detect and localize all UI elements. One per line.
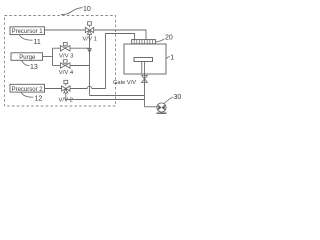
svg-text:11: 11 xyxy=(34,39,41,46)
label 11 xyxy=(34,39,41,46)
valve V/V 1 (3-way) xyxy=(85,22,93,35)
pump 30 xyxy=(157,103,167,113)
svg-text:Purge: Purge xyxy=(19,55,36,61)
svg-text:13: 13 xyxy=(30,64,38,71)
valve V/V 2 (3-way) xyxy=(62,80,70,93)
label V/V 1 xyxy=(83,36,97,42)
label 12 leader xyxy=(21,92,34,97)
label 10 leader xyxy=(61,8,83,15)
wire precursor1 to V/V1 xyxy=(44,29,85,31)
label 13 xyxy=(30,64,38,71)
svg-text:Precursor 2: Precursor 2 xyxy=(12,87,44,93)
showerhead 20 xyxy=(132,40,156,44)
wire V/V2 vent down and to exhaust xyxy=(66,93,145,100)
wire exhaust to pump xyxy=(145,106,158,108)
wire vent bottom run to exhaust xyxy=(90,95,146,97)
svg-text:Gate V/V: Gate V/V xyxy=(113,80,136,86)
valve V/V 4 xyxy=(60,60,70,68)
wire line B: V/V2 up riser to chamber drop (with hop over vent) xyxy=(70,34,135,89)
wire vent line from V/V1 down xyxy=(89,35,91,96)
svg-text:Precursor 1: Precursor 1 xyxy=(12,29,44,35)
label Gate V/V xyxy=(113,80,136,86)
label 20 leader xyxy=(156,39,165,42)
junction check mark on vent at V/V3 tee xyxy=(88,49,92,53)
svg-text:10: 10 xyxy=(83,6,91,13)
valve V/V 3 xyxy=(60,42,70,51)
chamber vessel 1 xyxy=(124,44,166,74)
svg-text:V/V 3: V/V 3 xyxy=(59,53,74,59)
svg-text:12: 12 xyxy=(35,95,43,102)
box Precursor 1 xyxy=(10,27,45,35)
gate valve xyxy=(142,76,148,83)
label 11 leader xyxy=(20,35,33,40)
wire purge manifold split xyxy=(43,48,61,65)
label 13 leader xyxy=(22,61,30,66)
label V/V 2 xyxy=(59,97,73,103)
wire chamber exhaust down xyxy=(144,74,146,107)
svg-text:30: 30 xyxy=(174,94,182,101)
box Precursor 2 xyxy=(10,84,45,93)
label V/V 3 xyxy=(59,53,74,59)
svg-text:20: 20 xyxy=(165,34,173,41)
label 30 xyxy=(174,94,182,101)
wire V/V4 to vent tee xyxy=(70,65,90,67)
label 20 xyxy=(165,34,173,41)
wire V/V3 to vent tee xyxy=(70,47,90,49)
label 12 xyxy=(35,95,43,102)
wire line A: V/V1 to chamber drop xyxy=(94,30,146,40)
box Purge xyxy=(11,53,43,61)
svg-text:V/V 4: V/V 4 xyxy=(59,70,74,76)
svg-text:1: 1 xyxy=(170,54,174,61)
susceptor pedestal xyxy=(134,58,153,75)
label V/V 4 xyxy=(59,70,74,76)
label 1 xyxy=(170,54,174,61)
wire precursor2 to V/V2 xyxy=(44,88,62,90)
label 10 xyxy=(83,6,91,13)
label 30 leader xyxy=(164,97,173,104)
dashed system boundary box 10 xyxy=(5,16,116,107)
label 1 leader xyxy=(167,57,171,59)
